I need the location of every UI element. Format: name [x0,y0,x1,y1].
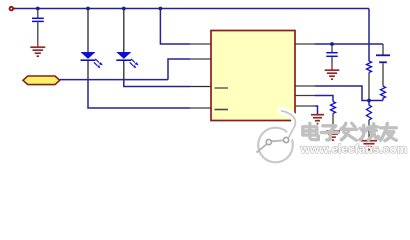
junction dot B (LED D1 tap) [86,7,90,11]
友 [381,127,397,130]
U1 inside pin-name dash row3 [215,87,229,89]
wire riser to U1 pin row2 (y=59) [168,59,190,80]
wire right row2 to junction [315,86,383,101]
pin U1 right row4 [295,105,315,107]
resistor R1 (from top rail) [367,61,372,73]
watermark cable hook (white halo) [282,111,296,138]
watermark chinese text 电子发烧友 (drawn strokes) [303,123,397,141]
pin U1 left row3 [190,86,211,88]
wire port to riser [60,79,168,81]
烧 [363,126,366,135]
capacitor C3 (polarized) [376,44,390,86]
resistor R3 [331,102,336,114]
ground GND3 [311,115,324,124]
wire LED D1 cathode to U1 pin (row y=108) [88,80,190,108]
watermark plug circle right [284,137,289,142]
pin U1 right row1 [295,43,315,45]
capacitor C2 [326,46,337,64]
op-amp U1 body [211,31,295,121]
LED D2 [116,10,139,80]
wire LED D2 cathode to U1 pin (row y=86.5) [124,80,190,87]
watermark cable line lower [257,144,267,152]
wire right row1 to C3 [315,43,383,45]
wire top rail [14,8,370,10]
no-ERC open circle marker [10,7,14,11]
ground GND2 [325,64,340,80]
发 [342,124,347,130]
junction dot E (C2 tap) [330,42,334,46]
ground GND1 [30,40,45,56]
junction dot D (riser to U1 pin row1) [159,7,163,11]
junction dot F [367,99,371,103]
pin U1 left row1 [190,43,211,45]
pin R1 bottom lead [368,73,370,101]
pin R4 bottom lead [368,120,370,141]
wire right row3 to R3 [315,96,333,102]
wire right row4 to GND3 [315,106,318,115]
resistor R2 [381,86,386,100]
LED D1 [81,10,104,80]
wire riser to U1 pin row1 (y=44) [160,9,190,45]
pin U1 right row2 [295,85,315,87]
ground GND4 [326,131,340,140]
svg-text:www.elecfans.com: www.elecfans.com [300,142,408,156]
子 [323,126,336,132]
capacitor C1 [32,10,44,41]
pin U1 left row4 [190,107,211,109]
watermark logo circle [257,111,296,162]
U1 inside pin-name dash row4 [215,109,229,111]
pin U1 right row3 [295,95,315,97]
watermark plug circle left [266,140,271,145]
ground GND5 [361,141,377,150]
junction dot A (C1 tap) [36,7,40,11]
junction dot C (LED D2 tap) [122,7,126,11]
wire right rail down to R4 [368,9,370,62]
pin R3 bottom lead [332,114,334,132]
电 [310,124,319,140]
pin U1 left row2 [190,58,211,60]
resistor R4 [367,101,372,121]
port P1 [23,76,60,85]
